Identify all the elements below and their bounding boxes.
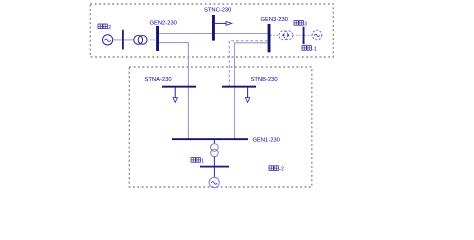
svg-text:GEN2-230: GEN2-230 [150, 20, 177, 26]
dashed tie line GEN3 to STNB [229, 41, 267, 86]
line GEN2 to STNC to GEN3 [159, 33, 268, 35]
wire T3 to bar (dashed) [293, 34, 303, 36]
area 2 boundary (区域-2 box) [129, 67, 311, 187]
generator G2 [103, 35, 113, 45]
bus STNB-230 [222, 86, 256, 88]
load arrow at STNB [245, 88, 249, 103]
label 区域-2 [269, 166, 284, 173]
wire T2 to bus GEN2 (dashed) [147, 39, 156, 41]
svg-text:2: 2 [108, 25, 111, 31]
bus GEN1-230 [172, 138, 248, 140]
wire T1 to bar [213, 157, 215, 166]
wire bar to G1 [213, 168, 215, 178]
wire bar to G3 (dashed) [305, 34, 313, 36]
svg-text:-1: -1 [312, 46, 317, 52]
bus GEN3-230 [268, 24, 271, 52]
generator G3 (dashed) [312, 30, 322, 40]
tie line GEN2 to STNA to GEN1 [159, 43, 188, 139]
transformer T2 [134, 36, 147, 45]
terminal bar of G1 [200, 166, 229, 168]
svg-text:GEN1-230: GEN1-230 [253, 137, 280, 143]
transformer T1 [211, 144, 219, 157]
load arrow at STNA [173, 88, 177, 103]
tie line GEN3 to STNB to GEN1 [235, 43, 268, 139]
label 发电3 [294, 21, 307, 28]
label 发电2 [98, 24, 111, 31]
label 发电1 [191, 158, 204, 165]
svg-text:STNB-230: STNB-230 [251, 77, 278, 83]
wire GEN1 bus to T1 [213, 140, 215, 144]
wire bar to transformer T2 [124, 39, 134, 41]
bus STNA-230 [162, 86, 196, 88]
wire GEN3 bus to T3 (dashed) [271, 34, 279, 36]
generator G1 [209, 177, 219, 187]
label 区域-1 [302, 46, 317, 53]
svg-text:3: 3 [304, 21, 307, 27]
terminal bar of G2 [122, 30, 124, 50]
svg-text:1: 1 [201, 158, 204, 164]
svg-text:STNA-230: STNA-230 [145, 77, 172, 83]
load arrow at STNC [215, 22, 232, 26]
svg-text:STNC-230: STNC-230 [204, 8, 231, 14]
area 1 boundary (区域-1 box) [90, 4, 333, 57]
svg-text:-2: -2 [279, 167, 284, 173]
transformer T3 (dashed) [279, 31, 293, 40]
svg-text:GEN3-230: GEN3-230 [261, 17, 288, 23]
terminal bar of G3 [303, 27, 305, 44]
wire G2 to bar [113, 39, 122, 41]
bus GEN2-230 [156, 26, 159, 51]
bus STNC-230 [212, 15, 215, 41]
